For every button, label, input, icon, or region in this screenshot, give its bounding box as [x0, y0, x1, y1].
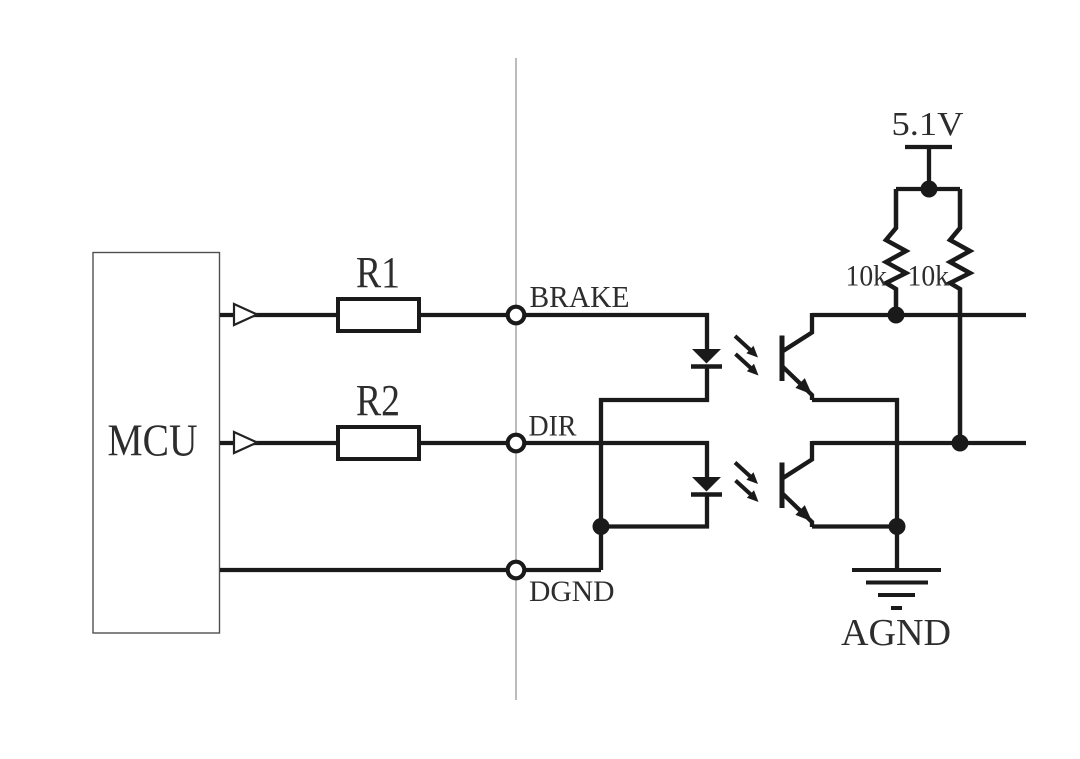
light arrow 2 of opto1 [736, 354, 759, 376]
LED of optocoupler 1 cathode bar [691, 364, 722, 369]
wire LED2 cathode to DGND net junction [601, 494, 707, 527]
junction dot right pullup to DIR rail [952, 435, 969, 452]
light arrow 1 of opto2 [735, 463, 758, 485]
LED of optocoupler 2 triangle [692, 477, 721, 492]
ground AGND bar 4 [891, 606, 902, 610]
pullup resistor left 10k [886, 189, 906, 315]
svg-text:R2: R2 [356, 375, 400, 425]
isolation boundary line [515, 58, 517, 700]
phototransistor 2 collector [783, 441, 812, 478]
wire MCU BRAKE output to R1 [220, 313, 336, 317]
wire opto2 emitter to AGND junction [812, 524, 897, 528]
wire MCU DIR output to R2 [220, 441, 336, 445]
LED of optocoupler 2 cathode bar [691, 492, 722, 497]
ground AGND bar 3 [878, 593, 915, 597]
phototransistor 1 emitter arrowhead [795, 378, 812, 394]
svg-text:DIR: DIR [529, 411, 577, 443]
phototransistor 2 emitter [783, 494, 812, 527]
phototransistor 1 emitter [783, 367, 812, 400]
MCU box [93, 253, 220, 634]
light arrow 2 of opto2 [736, 481, 759, 503]
LED of optocoupler 1 triangle [692, 349, 721, 364]
wire opto1 emitter to AGND net [812, 400, 897, 527]
node DIR circle [508, 435, 525, 452]
phototransistor 2 emitter arrowhead [795, 505, 812, 521]
svg-text:5.1V: 5.1V [892, 106, 964, 143]
buffer at MCU DIR pin [234, 432, 257, 453]
pullup resistor right 10k [950, 189, 970, 443]
resistor R2 [338, 427, 419, 459]
ground AGND bar 1 [852, 568, 941, 572]
junction dot DGND net [593, 518, 610, 535]
svg-text:MCU: MCU [108, 416, 198, 466]
wire AGND stem [895, 527, 899, 571]
junction dot AGND net [889, 518, 906, 535]
ground AGND bar 2 [866, 581, 928, 585]
svg-text:DGND: DGND [529, 575, 615, 608]
svg-text:AGND: AGND [841, 612, 951, 654]
phototransistor 1 base bar [780, 336, 785, 382]
phototransistor 1 collector [783, 313, 812, 351]
power bar 5.1V [905, 145, 952, 149]
svg-text:BRAKE: BRAKE [530, 280, 630, 314]
junction dot 5.1V rail [921, 181, 938, 198]
wire MCU DGND to net corner [220, 568, 601, 572]
resistor R1 [338, 299, 419, 331]
light arrow 1 of opto1 [735, 336, 758, 358]
wire 5.1V stem [927, 145, 931, 189]
svg-text:10k: 10k [846, 261, 888, 293]
buffer at MCU BRAKE pin [234, 304, 257, 325]
svg-text:10k: 10k [908, 261, 950, 293]
junction dot left pullup to BRAKE rail [888, 307, 905, 324]
wire top rail between pullups [896, 187, 960, 191]
wire R1 to LED1 anode through BRAKE node [421, 315, 707, 349]
wire R2 to LED2 anode through DIR node [421, 443, 707, 477]
svg-text:R1: R1 [356, 247, 400, 297]
node DGND circle [508, 562, 525, 579]
node BRAKE circle [508, 307, 525, 324]
wire LED1 cathode down to DGND net [601, 366, 707, 570]
collector rail BRAKE side [812, 313, 1026, 317]
phototransistor 2 base bar [780, 463, 785, 509]
collector rail DIR side [812, 441, 1026, 445]
